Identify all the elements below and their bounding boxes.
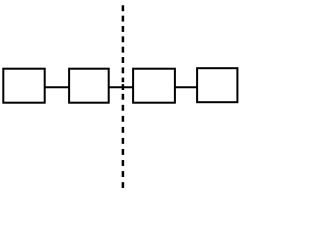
dashed divider line (vertical, center) — [122, 5, 125, 188]
wire: connector block1 to block2 — [44, 86, 70, 88]
wire: connector block3 to block4 — [174, 86, 198, 88]
block 3 — [133, 69, 175, 103]
block 1 (leftmost box) — [3, 69, 44, 103]
wire: connector block2 to block3 (crosses dashed divider) — [108, 86, 134, 88]
block 2 — [69, 69, 109, 103]
block 4 (rightmost box) — [197, 68, 237, 102]
